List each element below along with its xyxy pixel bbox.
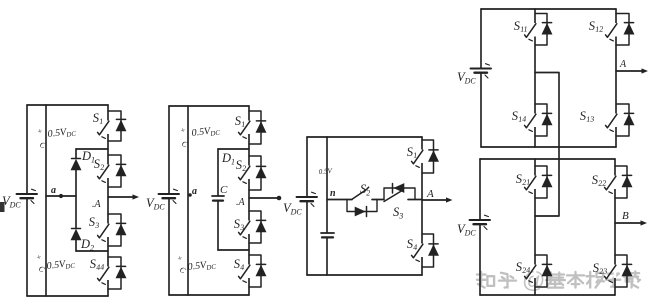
wire: bridge-1 top rail: [481, 8, 616, 10]
diode antiparallel to S2: [347, 200, 377, 217]
switch S1 with antiparallel diode (converter 2): [234, 111, 266, 144]
output node A (converter 1): [92, 194, 139, 210]
wire: bridge-2 top rail: [480, 158, 615, 160]
wire: converter-1 bottom rail: [27, 295, 108, 297]
node a (converter-1 neutral): [46, 185, 76, 198]
wire: converter-2 top rail: [169, 105, 249, 107]
switch S3 with antiparallel diode (converter 1): [88, 214, 126, 246]
switch S3 (bidirectional, converter 3): [384, 190, 403, 221]
wire: S2-S3 link: [372, 199, 384, 201]
wire: converter-3 bottom rail: [307, 274, 422, 276]
switch S21 with antiparallel diode: [515, 166, 552, 198]
value label 0.5Vdc (converter-3 upper capacitor): [318, 167, 332, 176]
switch S11 with antiparallel diode: [513, 14, 552, 46]
switch S23 with antiparallel diode: [515, 255, 552, 287]
wire: converter-2 outer left rail: [168, 106, 170, 295]
output node B (bridge 2): [615, 210, 647, 226]
wire: bridge-2 bottom rail: [480, 294, 615, 296]
wire: bridge-2 inner leg: [534, 159, 536, 295]
switch S1 with antiparallel diode (converter 1): [92, 110, 126, 141]
svg-text:0.5V: 0.5V: [318, 167, 332, 176]
wire: clamp top connection: [76, 148, 108, 150]
diode D2: [71, 228, 94, 253]
wire: bridge-2 right leg: [614, 159, 616, 295]
svg-text:A: A: [426, 188, 434, 200]
switch S2 with antiparallel diode (converter 1): [93, 155, 126, 187]
capacitor C (flying capacitor): [212, 184, 228, 201]
switch S1 with antiparallel diode (converter 3): [406, 140, 438, 173]
scan artifact fragment: [0, 202, 5, 212]
wire: bridge-1 inner leg: [534, 9, 536, 147]
battery V_DC (converter 1): [2, 189, 37, 209]
wire: clamp branch vertical: [75, 149, 77, 251]
output node A (bridge 1): [616, 59, 648, 74]
output node A (converter 3): [422, 188, 453, 203]
watermark: Zhihu 知乎 @基本杨子葳: [477, 267, 640, 293]
wire: converter-1 top rail: [27, 104, 108, 106]
wire: bridge-1 bottom rail: [481, 146, 616, 148]
value label 0.5V_DC (converter-2 lower capacitor): [177, 253, 217, 275]
wire: converter-2 switch column: [248, 106, 250, 295]
output node A (converter 2): [236, 196, 281, 208]
label D1 (converter 2): [221, 151, 235, 167]
switch S4 with antiparallel diode (converter 2): [233, 255, 266, 287]
wire: flying-capacitor branch vertical: [217, 149, 219, 250]
capacitor C2 (converter-3 lower DC-link capacitor): [321, 233, 334, 237]
wire: converter-3 top rail: [307, 136, 422, 138]
wire: converter-1 outer left rail: [26, 105, 28, 296]
svg-text:.A: .A: [236, 197, 246, 208]
wire: converter-1 switch column: [107, 105, 109, 296]
switch S2 with antiparallel diode (converter 2): [235, 156, 266, 190]
node n (converter-3 neutral): [330, 188, 336, 199]
svg-text:a: a: [51, 185, 56, 196]
wire: converter-3 DC-link middle rail: [326, 137, 328, 275]
svg-text:C: C: [220, 184, 228, 196]
value label 0.5V_DC (converter-1 lower capacitor): [36, 252, 76, 274]
wire: cascade link between bridges: [535, 73, 559, 217]
value label 0.5V_DC (converter-1 upper capacitor): [37, 126, 77, 151]
wire: converter-2 DC-link middle rail: [187, 106, 189, 295]
wire: flying-capacitor bottom connection: [218, 249, 249, 251]
svg-text:A: A: [619, 59, 627, 70]
switch S22 with antiparallel diode: [591, 166, 632, 198]
wire: bridge-1 left rail: [480, 9, 482, 147]
wire: bridge-2 left rail: [479, 159, 481, 295]
wire: bridge-1 right leg: [615, 9, 617, 147]
switch S12 with antiparallel diode: [588, 14, 634, 46]
wire: converter-3 switch column: [421, 137, 423, 275]
wire: bidirectional switch to output: [408, 199, 422, 201]
switch S14 with antiparallel diode: [579, 104, 634, 136]
svg-text:a: a: [192, 186, 197, 197]
wire: clamp bottom connection: [76, 250, 108, 252]
battery V_DC (converter 3): [283, 192, 317, 216]
svg-text:B: B: [622, 210, 629, 222]
node a (converter-2 midpoint): [188, 186, 197, 197]
switch S13 with antiparallel diode: [511, 104, 552, 136]
battery V_DC (bridge 2): [457, 215, 490, 237]
switch S2 (bidirectional, converter 3): [352, 182, 370, 199]
switch S3 with antiparallel diode (converter 2): [233, 211, 266, 243]
wire: converter-1 DC-link middle rail: [45, 105, 47, 296]
wire: flying-capacitor top connection: [218, 148, 249, 150]
switch S4 with antiparallel diode (converter 3): [406, 234, 438, 267]
svg-text:.A: .A: [92, 199, 102, 210]
wire: neutral to bidirectional switch: [327, 199, 352, 201]
diode D1: [71, 149, 95, 170]
wire: converter-3 outer left rail: [306, 137, 308, 275]
wire: converter-2 bottom rail: [169, 294, 249, 296]
switch S4 with antiparallel diode (converter 1): [89, 256, 126, 289]
switch S24 with antiparallel diode: [592, 255, 632, 287]
battery V_DC (converter 2): [146, 189, 179, 211]
battery V_DC (bridge 1): [457, 64, 491, 86]
value label 0.5V_DC (converter-2 upper capacitor): [180, 125, 221, 150]
diode antiparallel to S3: [384, 184, 415, 200]
svg-text:n: n: [330, 188, 336, 199]
